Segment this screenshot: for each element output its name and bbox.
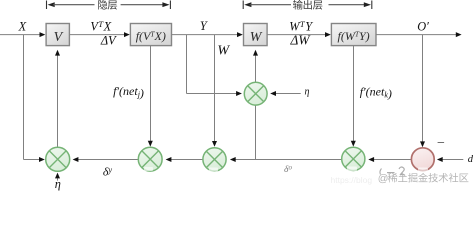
block W (weight matrix)	[244, 24, 268, 46]
svg-text:δo: δo	[284, 164, 292, 176]
svg-text:Y: Y	[200, 19, 208, 33]
wire: error node to multiplier D	[368, 157, 411, 162]
faint glyphs above watermark	[380, 167, 405, 176]
multiplier node F (delta-W product)	[244, 82, 267, 105]
wire: X input into V	[0, 32, 45, 37]
wire: output O-prime	[376, 32, 462, 37]
svg-text:O′: O′	[417, 19, 429, 33]
wire: V to f(VTX)	[69, 32, 129, 37]
multiplier node D (f-prime net_k product)	[342, 147, 365, 170]
svg-text:−: −	[437, 136, 445, 151]
block f(VTX) activation	[130, 24, 171, 46]
svg-text:X: X	[18, 20, 27, 34]
wire: eta into multiplier F	[270, 91, 301, 96]
multiplier node A (delta-V product)	[46, 147, 70, 171]
wire: O-prime drop to error node	[420, 35, 425, 148]
label: output layer (CJK)	[293, 0, 322, 10]
dimension arrow: output layer span	[243, 1, 372, 10]
svg-text:https://blog: https://blog	[331, 175, 373, 185]
node: X branch drop	[24, 35, 45, 162]
svg-text:ΔV: ΔV	[100, 34, 117, 48]
label: hidden layer (CJK)	[98, 0, 117, 10]
dimension arrow: hidden layer span	[47, 1, 171, 10]
block f(WTY) activation	[331, 24, 376, 46]
svg-text:W: W	[217, 44, 230, 59]
block V (weight matrix)	[46, 24, 69, 46]
wire: error line D to C with delta-o	[230, 157, 342, 162]
svg-text:@: @	[378, 172, 389, 184]
wire: C to B	[166, 157, 203, 162]
wire: B to A with delta-y	[73, 157, 139, 162]
error node (d minus O)	[411, 148, 434, 171]
wire: eta into multiplier A	[55, 173, 60, 181]
svg-text:f′(netj): f′(netj)	[113, 84, 144, 100]
wire: multiplier A up into V (delta-V update)	[55, 50, 60, 147]
wire: W to f(WTY)	[267, 32, 331, 37]
svg-text:ΔW: ΔW	[290, 33, 312, 48]
multiplier node B (f-prime net_j product)	[138, 147, 162, 171]
wire: multiplier F down tap to delta-o line	[255, 105, 257, 159]
svg-text:V: V	[54, 30, 64, 45]
svg-text:VTX: VTX	[90, 19, 111, 34]
multiplier node C (W delta-o product)	[203, 148, 226, 171]
wire: f(WTY) drop to multiplier D with f-prime(net_k)	[351, 46, 356, 147]
svg-text:WTY: WTY	[289, 19, 313, 34]
svg-text:δy: δy	[103, 165, 113, 179]
wire: f(VTX) to W with Y label	[172, 32, 243, 37]
watermark smudges over node bottoms	[144, 167, 428, 173]
wire: d input into error node	[437, 157, 463, 162]
svg-text:d: d	[468, 154, 474, 165]
wire: Y branch to delta-W multiplier	[187, 35, 242, 96]
wire: Y branch down to delta-y multiplier C	[212, 35, 217, 147]
wire: f(VTX) drop to multiplier B with f-prime(net_j)	[148, 46, 153, 147]
svg-text:η: η	[55, 177, 61, 191]
svg-text:W: W	[250, 30, 263, 45]
wire: multiplier F up into W (delta-W update)	[253, 50, 258, 82]
svg-text:η: η	[305, 87, 310, 98]
watermark: juejin community (CJK)	[378, 172, 469, 184]
svg-text:f(WTY): f(WTY)	[338, 29, 370, 43]
svg-text:f′(netk): f′(netk)	[360, 84, 392, 100]
